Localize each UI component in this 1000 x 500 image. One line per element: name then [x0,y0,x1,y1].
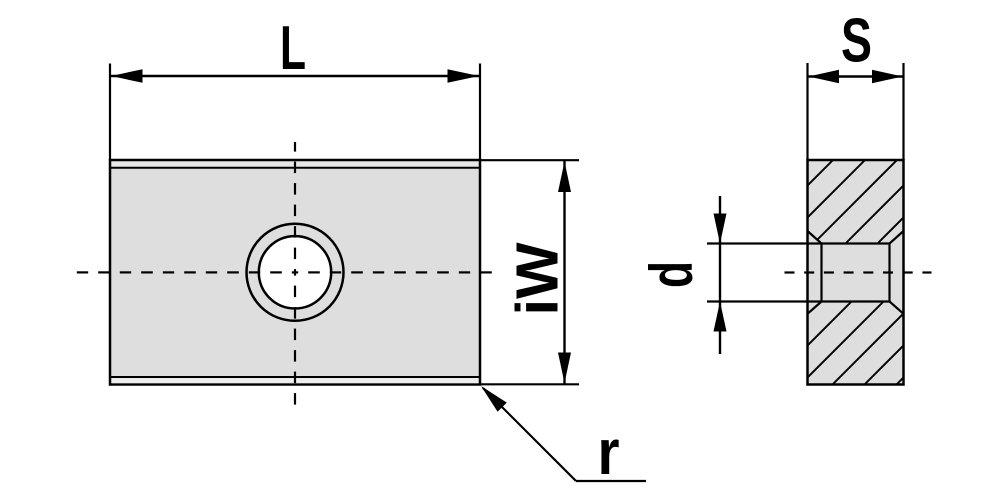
L arrow left [111,69,143,83]
d arrow bottom [714,302,727,332]
hatching bottom block [433,100,1000,500]
S arrow right [872,70,903,83]
top cutting edge inner line [110,167,480,169]
iW dimension line [563,161,565,385]
L dimension line [110,75,480,77]
top cutting edge strip [112,162,479,167]
r leader horizontal line [576,480,646,482]
S extension line left [806,63,808,160]
svg-text:S: S [841,7,872,76]
r leader diagonal line [483,388,576,481]
hole inner circle [259,236,331,308]
svg-text:r: r [598,416,620,488]
S arrow left [809,70,840,83]
iW arrow bottom [558,353,571,384]
L arrow right [448,69,480,83]
svg-text:L: L [280,14,306,83]
bottom cutting edge strip [112,378,479,383]
svg-text:iW: iW [505,242,571,315]
vertical centerline [294,142,296,152]
iW extension line top [481,159,579,161]
S dimension line [808,75,904,77]
horizontal centerline [77,271,88,273]
countersink chamfer top left [808,231,822,244]
front view insert body [110,160,480,385]
countersink chamfer bottom left [808,302,822,314]
S extension line right [902,63,904,160]
svg-text:d: d [638,261,705,288]
hole bottom line with extension [707,300,890,302]
iW extension line bottom [481,383,579,385]
countersink chamfer bottom right [890,302,904,314]
d arrow top [714,214,727,244]
side view centerline [785,271,795,273]
chamfer vertical left [820,244,822,302]
counterbore outer circle [247,224,344,321]
d dimension line [719,196,721,354]
bottom cutting edge inner line [110,376,480,378]
L extension line right [479,64,481,161]
L extension line left [109,64,111,161]
r leader arrowhead [481,386,507,412]
hatching top block [433,100,1000,500]
side view insert body [808,160,904,385]
hole top line with extension [707,242,890,244]
countersink chamfer top right [890,231,904,244]
iW arrow top [558,162,571,193]
chamfer vertical right [888,244,890,302]
